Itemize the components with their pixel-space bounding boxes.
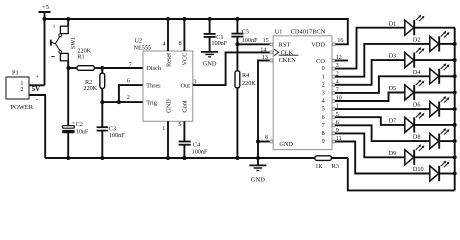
pin label Q6 inside U1 [322, 114, 325, 121]
svg-text:NE555: NE555 [134, 44, 152, 51]
pin label Q0 inside U1 [322, 65, 325, 72]
node D10 cathode bus junction [453, 172, 457, 176]
pin label Disch [146, 65, 162, 72]
pin label Q5 inside U1 [322, 106, 325, 113]
svg-text:100nF: 100nF [109, 132, 125, 139]
wire P1 pin2 stub to ground rail [29, 95, 45, 158]
svg-text:3: 3 [193, 80, 196, 86]
svg-text:7: 7 [322, 122, 325, 129]
pin circle GND8 [270, 140, 273, 143]
svg-text:R1: R1 [77, 54, 84, 61]
svg-text:D7: D7 [389, 118, 397, 125]
svg-text:SW1: SW1 [70, 37, 77, 50]
pin number 3 label [336, 63, 339, 69]
svg-text:D8: D8 [413, 134, 421, 141]
IC U2 NE555 box [134, 38, 193, 122]
node D2 cathode bus junction [453, 42, 457, 46]
pin label Reset [165, 53, 172, 67]
pin circle Q0 [332, 67, 335, 70]
svg-text:GND: GND [251, 177, 265, 184]
wire Q7 to LED D8 [335, 125, 430, 141]
svg-text:8: 8 [322, 130, 325, 137]
pin circle Q9 [332, 140, 335, 143]
wire R3 to LED cathode return [348, 158, 455, 190]
wire Q3 to LED D4 [335, 76, 430, 93]
pin number 1 label [336, 104, 339, 110]
svg-text:RST: RST [279, 42, 291, 49]
wire RST pin15 [237, 38, 270, 44]
LED D1 [389, 15, 455, 36]
node D5 cathode bus junction [453, 91, 457, 95]
pin circle VDD [332, 38, 343, 46]
svg-text:14: 14 [260, 47, 266, 53]
wire Reset pin4 to rail [163, 19, 168, 51]
svg-text:15: 15 [263, 38, 269, 44]
svg-text:5: 5 [322, 106, 325, 113]
svg-text:D3: D3 [389, 53, 397, 60]
node C3 ground junction [100, 156, 104, 160]
wire Q6 to LED D7 [335, 117, 405, 125]
wire Q9 to LED D10 [335, 142, 430, 174]
svg-text:12: 12 [336, 55, 342, 61]
pin circle Q4 [332, 100, 335, 103]
LED D5 [389, 80, 455, 101]
wire VDD drop from rail [335, 18, 348, 44]
wire Out pin3 to CLK pin14 [193, 52, 270, 85]
svg-text:D6: D6 [413, 102, 421, 109]
capacitor C2 [62, 68, 88, 158]
wire Cont pin5 to C4 [178, 121, 184, 141]
wire Q2 to LED D3 [335, 60, 405, 85]
pin number 9 label [336, 128, 339, 134]
svg-text:5: 5 [178, 122, 181, 128]
node Thres/Trig junction [117, 100, 121, 104]
connector P1 box [6, 70, 34, 112]
node C4 ground junction [182, 156, 186, 160]
svg-text:2: 2 [20, 86, 23, 93]
svg-text:7: 7 [129, 63, 132, 69]
ground symbol below C1 [201, 52, 218, 68]
svg-text:16: 16 [337, 38, 343, 44]
capacitor C3 [97, 102, 126, 158]
ground symbol below rail [249, 158, 266, 184]
pin label RST [279, 42, 291, 49]
wire +5 vertical to P1 pin1 [44, 12, 46, 85]
pin label GND U2 [165, 99, 172, 113]
LED D10 [413, 161, 455, 182]
node D6 cathode bus junction [453, 107, 457, 111]
node C5 rail junction [235, 17, 239, 21]
wire GND pin8 stub [258, 135, 270, 142]
wire CKEN pin13 to GND pin8 [258, 55, 270, 141]
svg-text:D9: D9 [389, 150, 397, 157]
pin number 11 label [336, 136, 342, 142]
LED D7 [389, 112, 455, 133]
node R2/C3/Trig junction [100, 100, 104, 104]
wire Trig pin2 [102, 95, 143, 102]
pin circle Q8 [332, 132, 335, 135]
node CKEN/GND8 junction [256, 140, 260, 144]
svg-text:+: + [72, 120, 75, 126]
svg-text:CD4017BCN: CD4017BCN [291, 29, 326, 36]
svg-text:CO: CO [316, 58, 325, 65]
node ground-rail GND symbol junction [256, 156, 260, 160]
node D4 cathode bus junction [453, 74, 457, 78]
pin label CLK [274, 49, 293, 56]
svg-text:D4: D4 [413, 69, 421, 76]
svg-text:Disch: Disch [146, 65, 162, 72]
svg-text:9: 9 [322, 138, 325, 145]
node VCC rail junction [182, 17, 186, 21]
pin circle Q2 [332, 83, 335, 86]
node D7 cathode bus junction [453, 123, 457, 127]
capacitor C5 [231, 19, 258, 71]
switch SW1 [51, 17, 70, 68]
pin circle Q7 [332, 124, 335, 127]
wire Q8 to LED D9 [335, 133, 405, 157]
power +5 symbol [39, 4, 51, 12]
svg-text:Trig: Trig [146, 99, 157, 106]
svg-text:Out: Out [181, 82, 191, 89]
pin circle RST [270, 43, 273, 46]
node RST/C5/R4 junction [235, 42, 239, 46]
pin 2 label P1 [20, 86, 23, 93]
label SW1 [70, 37, 77, 50]
wire VCC pin8 to rail [179, 19, 185, 51]
pin label CO [316, 58, 325, 65]
svg-text:CKEN: CKEN [279, 57, 297, 64]
pin number 5 label [336, 112, 339, 118]
LED D2 [413, 31, 455, 52]
LED D4 [413, 63, 455, 84]
node R4 ground junction [235, 156, 239, 160]
IC U1 CD4017BCN box [273, 29, 332, 150]
svg-text:C2: C2 [76, 121, 83, 128]
pin circle CLK [260, 47, 273, 54]
pin circle Q3 [332, 91, 335, 94]
node SW1/R1/C2 junction [66, 66, 70, 70]
wire LED cathode bus [454, 28, 456, 191]
svg-text:GND: GND [165, 99, 172, 113]
svg-text:R4: R4 [242, 72, 249, 79]
svg-text:R3: R3 [332, 163, 339, 170]
svg-text:100nF: 100nF [242, 37, 258, 44]
svg-text:2: 2 [127, 95, 130, 101]
svg-text:C5: C5 [242, 28, 249, 35]
pin label Q2 inside U1 [322, 81, 325, 88]
svg-text:VDD: VDD [311, 42, 325, 49]
node C1 rail junction [208, 17, 212, 21]
wire Q5 to LED D6 [335, 108, 430, 110]
wire P1 pin1 stub [29, 84, 45, 86]
wire Thres pin6 [119, 78, 143, 102]
svg-text:100nF: 100nF [192, 148, 208, 155]
wire GND8 down to rail [257, 142, 259, 159]
pin label Thres [146, 82, 161, 89]
svg-text:220K: 220K [242, 80, 256, 87]
pin label VDD U1 [311, 42, 325, 49]
node C2 ground junction [66, 156, 70, 160]
pin circle Q1 [332, 75, 335, 78]
wire GND pin1 to rail [162, 121, 168, 158]
pin number 4 label [336, 79, 339, 85]
svg-text:2: 2 [322, 81, 325, 88]
LED D8 [413, 128, 455, 149]
pin label Q4 inside U1 [322, 98, 325, 105]
svg-text:8: 8 [265, 135, 268, 141]
pin label VCC U2 [181, 53, 188, 66]
pin label Q7 inside U1 [322, 122, 325, 129]
svg-text:Thres: Thres [146, 82, 161, 89]
pin number 7 label [336, 88, 339, 94]
svg-text:8: 8 [179, 41, 182, 47]
pin circle CKEN [270, 59, 273, 62]
svg-text:6: 6 [127, 78, 130, 84]
svg-text:5V: 5V [32, 85, 41, 93]
wire Disch pin7 [102, 63, 143, 69]
pin circle CO [332, 59, 335, 62]
wire Q0 to LED D1 [335, 28, 405, 69]
svg-text:Cont: Cont [181, 100, 188, 112]
pin number 10 label [336, 96, 342, 102]
node 5V labels [32, 74, 41, 103]
svg-text:4: 4 [163, 41, 166, 47]
svg-text:D10: D10 [413, 166, 424, 173]
resistor R2 [83, 68, 104, 102]
pin label Trig [146, 99, 157, 106]
wire Q1 to LED D2 [335, 44, 430, 77]
resistor R3 [315, 156, 348, 170]
svg-text:+: + [35, 74, 39, 81]
pin label Out [181, 82, 191, 89]
pin circle Q5 [332, 108, 335, 111]
pin label Q8 inside U1 [322, 130, 325, 137]
node top rail junction at +5 [43, 17, 47, 21]
svg-text:GND: GND [203, 61, 217, 68]
svg-text:GND: GND [279, 141, 293, 148]
pin label GND U1 [279, 141, 293, 148]
svg-text:1K: 1K [315, 163, 323, 170]
pin number 6 label [336, 120, 339, 126]
capacitor C1 [204, 19, 228, 52]
resistor R1 [68, 47, 102, 70]
capacitor C4 [179, 142, 208, 159]
node Reset rail junction [166, 17, 170, 21]
svg-text:100nF: 100nF [211, 40, 227, 47]
pin label Q9 inside U1 [322, 138, 325, 145]
pin label Cont [181, 100, 188, 112]
svg-text:220K: 220K [83, 85, 97, 92]
svg-text:U1: U1 [275, 29, 283, 36]
svg-text:D1: D1 [389, 20, 397, 27]
LED D9 [389, 144, 455, 165]
pin label CKEN with overline [279, 55, 299, 64]
svg-text:10uF: 10uF [76, 129, 89, 136]
svg-text:1: 1 [322, 73, 325, 80]
wire bottom ground rail [45, 157, 315, 159]
wire CO pin12 stub [335, 55, 348, 61]
svg-text:6: 6 [322, 114, 325, 121]
svg-text:D5: D5 [389, 85, 397, 92]
wire Q4 to LED D5 [335, 93, 405, 102]
LED D3 [389, 47, 455, 68]
svg-text:3: 3 [322, 90, 325, 97]
svg-text:+5: +5 [42, 4, 49, 11]
svg-text:1: 1 [162, 126, 165, 132]
svg-text:Reset: Reset [165, 53, 172, 67]
resistor R4 [235, 71, 256, 158]
svg-text:P1: P1 [12, 70, 19, 77]
node D8 cathode bus junction [453, 139, 457, 143]
node D9 cathode bus junction [453, 155, 457, 159]
svg-text:VCC: VCC [181, 53, 188, 66]
svg-text:13: 13 [262, 55, 268, 61]
node D3 cathode bus junction [453, 58, 457, 62]
node GND pin1 rail junction [166, 156, 170, 160]
svg-text:D2: D2 [413, 37, 421, 44]
pin label Q1 inside U1 [322, 73, 325, 80]
svg-text:POWER: POWER [11, 104, 34, 111]
pin label Q3 inside U1 [322, 90, 325, 97]
pin 1 label P1 [20, 80, 23, 87]
pin number 2 label [336, 71, 339, 77]
node R1/R2/Disch junction [100, 66, 104, 70]
svg-text:4: 4 [322, 98, 325, 105]
pin circle Q6 [332, 116, 335, 119]
LED D6 [413, 96, 455, 117]
svg-text:0: 0 [322, 65, 325, 72]
wire top +5 rail [45, 18, 348, 20]
